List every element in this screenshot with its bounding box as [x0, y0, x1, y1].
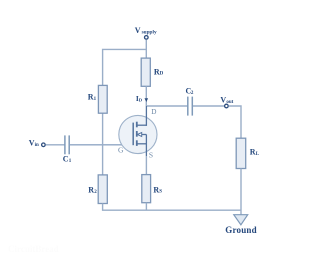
MOSFET drain lead: [145, 106, 147, 126]
label C1: [63, 155, 72, 164]
svg-text:D: D: [160, 72, 164, 77]
svg-text:S: S: [159, 190, 162, 195]
capacitor C2: [188, 97, 193, 116]
wire Vin to C1: [46, 144, 65, 146]
wire top rail: [103, 49, 147, 85]
resistor R2: [98, 175, 107, 204]
terminal Vin: [42, 143, 46, 147]
label Vin: [29, 139, 39, 148]
svg-text:CircuitBread: CircuitBread: [8, 244, 59, 254]
wire C2 to Vout: [193, 105, 224, 107]
svg-text:D: D: [151, 108, 156, 116]
terminal Vsupply: [145, 36, 149, 40]
wire RL to ground: [240, 169, 242, 215]
node D wire to C2: [146, 105, 187, 107]
ground symbol: [234, 215, 248, 225]
svg-text:S: S: [149, 151, 153, 160]
MOSFET source stub: [137, 143, 147, 145]
label C2: [186, 87, 194, 96]
label Vsupply: [135, 26, 157, 35]
wire source to Rs: [145, 156, 147, 175]
resistor RL: [236, 138, 246, 168]
terminal Vout: [225, 104, 229, 108]
label ID: [136, 94, 143, 103]
resistor Rs: [142, 175, 151, 203]
svg-text:Ground: Ground: [225, 225, 257, 235]
label R2: [88, 185, 97, 194]
wire Vsupply to RD: [145, 40, 147, 58]
MOSFET source lead: [145, 135, 147, 157]
current arrow ID: [145, 98, 149, 102]
MOSFET channel segments: [136, 122, 138, 146]
label Vout: [220, 95, 233, 104]
MOSFET gate bar: [132, 123, 134, 146]
svg-text:V: V: [135, 26, 141, 35]
wire Vout to RL: [229, 106, 241, 138]
wire RD to drain node: [145, 86, 147, 106]
wire R2 to bottom rail: [103, 204, 241, 211]
label RL: [250, 147, 260, 156]
MOSFET drain stub: [137, 124, 147, 126]
svg-text:out: out: [226, 100, 233, 105]
MOSFET Q1 body circle: [119, 115, 157, 153]
capacitor C1: [65, 135, 69, 154]
MOSFET body arrow: [137, 133, 146, 137]
resistor R1: [98, 85, 107, 113]
resistor RD: [141, 58, 150, 86]
label RD: [154, 67, 164, 76]
svg-text:G: G: [118, 145, 124, 154]
wire gate net C1 to MOSFET gate: [70, 144, 133, 146]
wire bias branch R1 to R2: [102, 113, 104, 175]
label Rs: [153, 185, 162, 194]
svg-text:supply: supply: [142, 29, 157, 35]
wire Rs to bottom rail: [145, 203, 147, 211]
svg-text:in: in: [35, 143, 39, 148]
label R1: [88, 93, 97, 102]
